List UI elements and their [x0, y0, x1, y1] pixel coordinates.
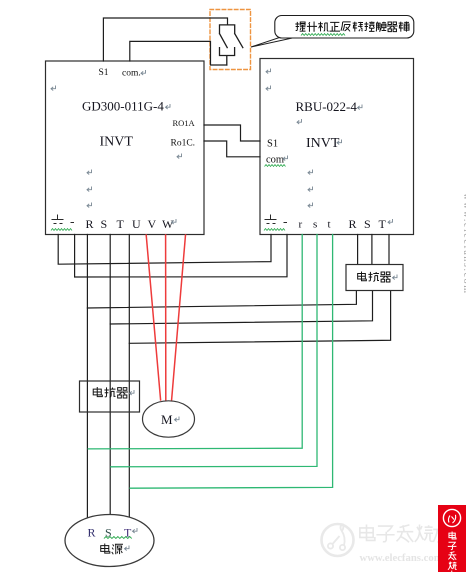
label reactor L1: [93, 387, 128, 398]
RBU labels: [266, 69, 271, 74]
svg-text:r: r: [299, 219, 303, 231]
watermark red corner box elecfans: [438, 505, 466, 572]
power source G ellipse: [65, 515, 154, 567]
svg-text:INVT: INVT: [100, 135, 134, 150]
callout squiggle: [301, 34, 323, 36]
wire RBU S to reactor L2: [371, 235, 373, 265]
wire S1 top to contact K: [103, 18, 227, 61]
svg-text:R: R: [349, 217, 357, 231]
svg-text:S: S: [101, 217, 108, 231]
svg-text:GD300-011G-4: GD300-011G-4: [82, 99, 164, 114]
svg-text:Ro1C.: Ro1C.: [171, 139, 196, 149]
wire W motor phase red: [172, 235, 186, 400]
svg-text:s: s: [313, 219, 317, 231]
wire U motor phase red: [146, 235, 160, 400]
wire V motor phase red: [165, 235, 167, 401]
svg-text:RO1A: RO1A: [173, 118, 196, 128]
wire ground bus PE1: [58, 235, 271, 265]
wire S phase main: [109, 235, 111, 517]
svg-text:W: W: [162, 217, 174, 231]
svg-text:M: M: [161, 412, 173, 427]
svg-text:com.: com.: [122, 69, 141, 79]
label power source: [101, 544, 123, 555]
svg-text:R: R: [86, 217, 94, 231]
svg-text:T: T: [379, 217, 387, 231]
svg-text:S1: S1: [99, 68, 109, 78]
svg-text:t: t: [328, 219, 331, 231]
svg-text:com: com: [266, 155, 284, 166]
motor M ellipse: [143, 401, 195, 437]
svg-text:T: T: [117, 217, 125, 231]
svg-text:S1: S1: [267, 139, 278, 150]
wire contact K bottom to com: [130, 41, 227, 65]
callout label text: [295, 22, 409, 32]
wire R phase main: [86, 235, 88, 520]
dashed auxiliary-contact enclosure: [210, 10, 251, 70]
reactor L1 box: [80, 381, 140, 412]
svg-text:S: S: [364, 217, 371, 231]
svg-text:U: U: [132, 217, 141, 231]
braking unit U2 RBU-022-4 box: [260, 59, 414, 235]
wire RBU R to reactor L2: [357, 235, 359, 265]
svg-text:RBU-022-4: RBU-022-4: [296, 99, 358, 114]
wire t green RBU input: [130, 235, 333, 489]
terminal ground U2: [265, 215, 288, 224]
label reactor L2: [358, 272, 391, 283]
wire RBU T to reactor L2: [388, 235, 390, 265]
inverter U1 GD300-011G-4 box: [46, 61, 205, 235]
wire RO1A to S1 of RBU: [204, 125, 260, 141]
wire T branch to reactor L2: [129, 291, 390, 344]
watermark bottom-center elecfans logo: [322, 524, 354, 557]
terminal ground U1: [52, 215, 75, 224]
svg-text:INVT: INVT: [306, 136, 340, 151]
watermark bottom-center CJK text: [360, 525, 451, 543]
reactor L2 box: [346, 265, 403, 291]
wire Ro1C to com of RBU: [204, 141, 260, 157]
contact K auxiliary switch: [220, 25, 243, 65]
wire r green RBU input: [88, 235, 302, 449]
callout bubble: [275, 16, 414, 39]
wire T phase main: [128, 235, 130, 520]
svg-text:www.elecfans.com: www.elecfans.com: [461, 193, 466, 295]
wire bus PE2: [75, 235, 287, 278]
svg-text:www.elecfans.com: www.elecfans.com: [360, 552, 443, 564]
svg-text:V: V: [148, 217, 157, 231]
callout bubble tail: [251, 36, 297, 47]
svg-text:R: R: [88, 526, 96, 540]
wire S branch to reactor L2: [110, 291, 372, 325]
wire s green RBU input: [111, 235, 317, 467]
wire R branch to reactor L2: [87, 291, 356, 309]
